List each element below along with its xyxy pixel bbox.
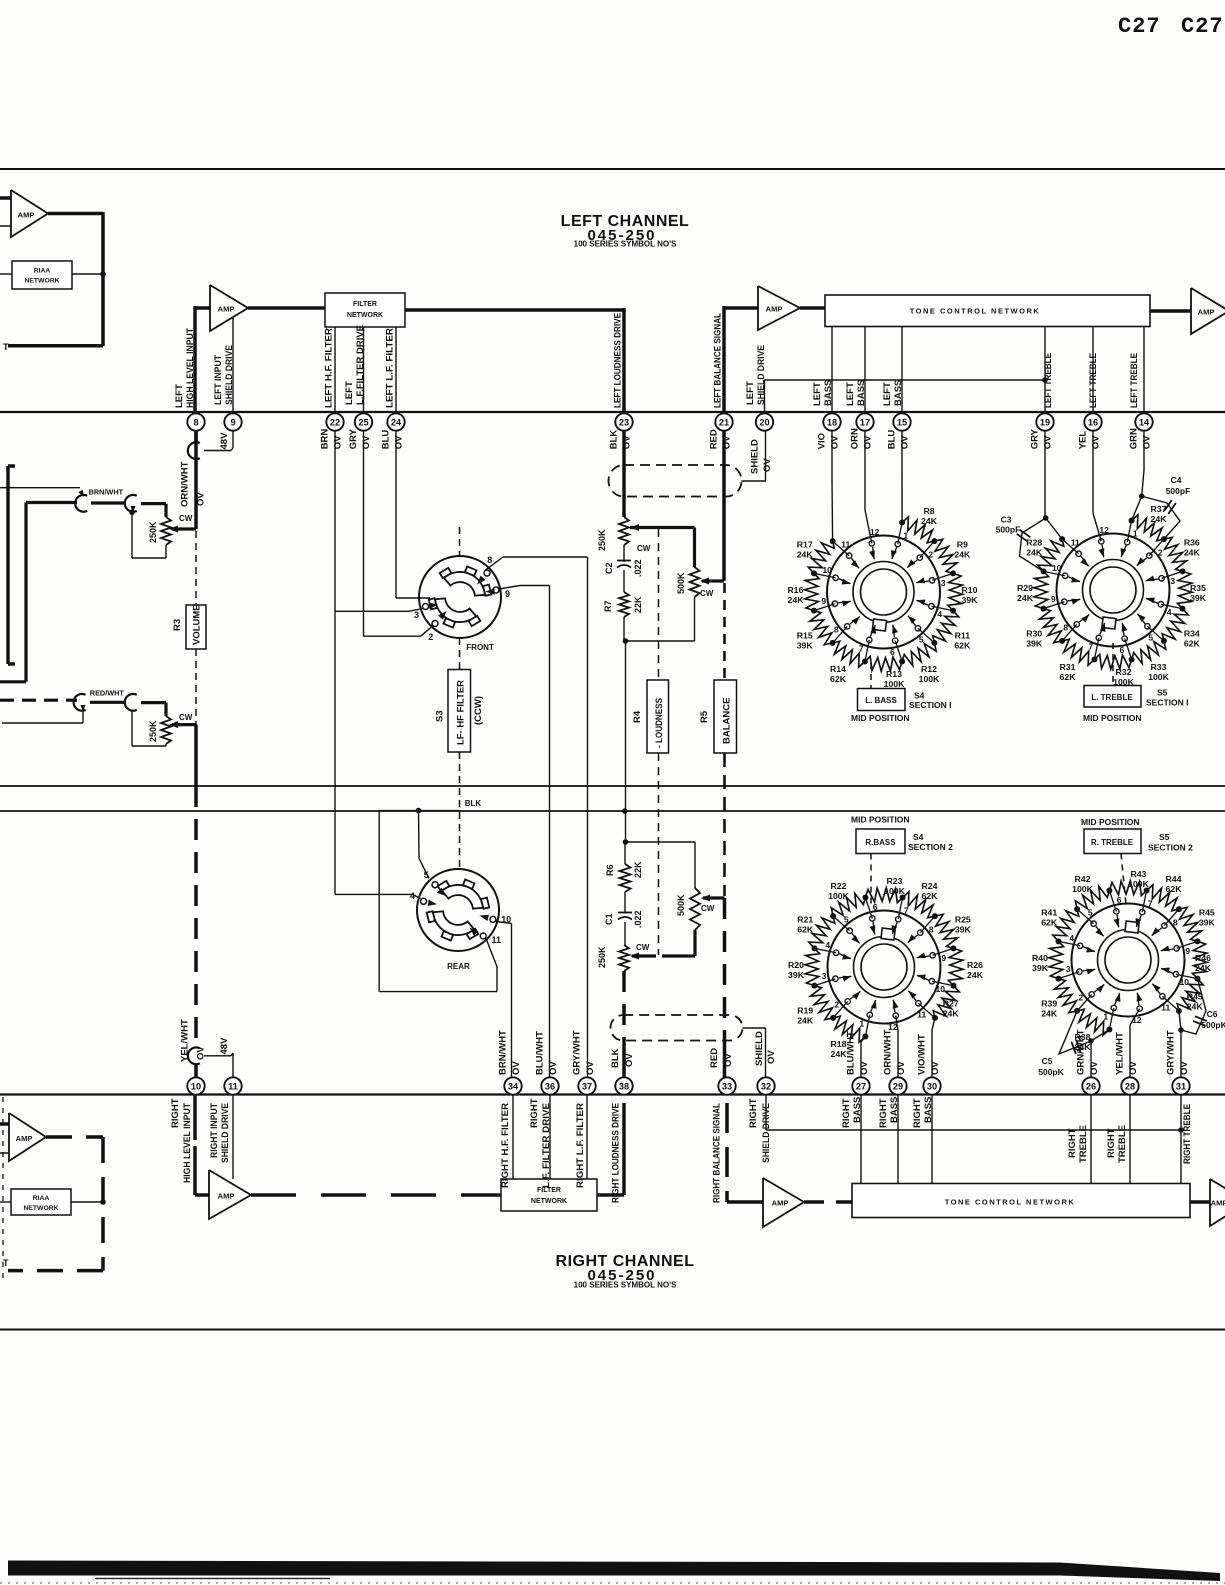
- svg-text:100 SERIES SYMBOL NO'S: 100 SERIES SYMBOL NO'S: [574, 1281, 677, 1290]
- svg-text:RIGHT H.F. FILTER: RIGHT H.F. FILTER: [500, 1103, 511, 1188]
- svg-text:GRY/WHT: GRY/WHT: [572, 1030, 583, 1075]
- svg-text:R11: R11: [955, 631, 971, 641]
- svg-text:- LOUDNESS: - LOUDNESS: [654, 698, 665, 748]
- svg-text:R42: R42: [1075, 874, 1091, 884]
- svg-text:C4: C4: [1171, 475, 1182, 485]
- svg-text:100K: 100K: [1148, 672, 1169, 682]
- svg-text:R16: R16: [788, 585, 804, 595]
- svg-text:RIGHT LOUDNESS DRIVE: RIGHT LOUDNESS DRIVE: [611, 1103, 622, 1203]
- svg-text:9: 9: [230, 417, 235, 427]
- svg-text:FILTER: FILTER: [353, 301, 377, 308]
- svg-text:OV: OV: [624, 1053, 635, 1067]
- svg-text:R33: R33: [1151, 662, 1167, 672]
- svg-text:YEL/WHT: YEL/WHT: [180, 1019, 191, 1062]
- svg-text:RIGHT: RIGHT: [878, 1098, 889, 1128]
- svg-text:2: 2: [1078, 993, 1083, 1003]
- svg-text:R36: R36: [1184, 538, 1200, 548]
- svg-text:R29: R29: [1017, 583, 1033, 593]
- svg-text:R34: R34: [1184, 629, 1200, 639]
- svg-text:VIO: VIO: [817, 433, 828, 449]
- svg-text:LEFT TREBLE: LEFT TREBLE: [1043, 353, 1054, 408]
- svg-text:6: 6: [1117, 895, 1122, 905]
- svg-text:BASS: BASS: [893, 380, 904, 406]
- svg-text:R15: R15: [797, 631, 813, 641]
- svg-text:OV: OV: [196, 492, 207, 506]
- svg-text:R22: R22: [831, 881, 847, 891]
- svg-text:5: 5: [424, 870, 429, 880]
- svg-text:8: 8: [193, 417, 198, 427]
- svg-text:22: 22: [330, 417, 340, 427]
- svg-text:RIGHT: RIGHT: [170, 1098, 181, 1128]
- svg-text:39K: 39K: [962, 595, 979, 605]
- svg-text:3: 3: [414, 610, 419, 620]
- svg-text:20: 20: [759, 417, 769, 427]
- svg-text:C6: C6: [1207, 1009, 1218, 1019]
- svg-text:4: 4: [1167, 607, 1172, 617]
- svg-text:MID POSITION: MID POSITION: [1083, 713, 1142, 723]
- svg-text:16: 16: [1088, 417, 1098, 427]
- svg-text:4: 4: [410, 891, 415, 901]
- svg-text:BLU: BLU: [381, 430, 392, 450]
- svg-text:MID POSITION: MID POSITION: [851, 815, 910, 825]
- svg-text:29: 29: [893, 1081, 903, 1091]
- svg-text:24K: 24K: [831, 1049, 848, 1059]
- svg-text:21: 21: [719, 417, 729, 427]
- svg-text:24K: 24K: [967, 970, 984, 980]
- svg-text:RED: RED: [709, 1048, 720, 1068]
- svg-text:10: 10: [191, 1081, 201, 1091]
- svg-text:30: 30: [927, 1081, 937, 1091]
- svg-text:GRY: GRY: [1030, 428, 1041, 449]
- svg-text:R8: R8: [923, 506, 934, 516]
- svg-text:C27: C27: [1181, 14, 1224, 39]
- svg-text:CW: CW: [700, 589, 714, 598]
- svg-text:C2: C2: [604, 562, 614, 574]
- svg-text:24K: 24K: [788, 595, 805, 605]
- svg-text:NETWORK: NETWORK: [347, 312, 383, 319]
- svg-text:R. TREBLE: R. TREBLE: [1091, 838, 1134, 847]
- svg-text:FILTER: FILTER: [537, 1187, 561, 1194]
- svg-text:24K: 24K: [1151, 514, 1168, 524]
- svg-text:24K: 24K: [1195, 963, 1212, 973]
- svg-text:100K: 100K: [884, 886, 905, 896]
- svg-text:500pK: 500pK: [1038, 1067, 1064, 1077]
- svg-text:4: 4: [825, 940, 830, 950]
- svg-text:RIGHT: RIGHT: [841, 1098, 852, 1128]
- svg-text:R24: R24: [922, 881, 938, 891]
- svg-text:RIGHT: RIGHT: [912, 1098, 923, 1128]
- svg-text:ORN/WHT: ORN/WHT: [883, 1029, 894, 1075]
- svg-text:ORN/WHT: ORN/WHT: [180, 461, 191, 507]
- svg-text:OV: OV: [723, 1053, 734, 1067]
- svg-text:MID POSITION: MID POSITION: [851, 713, 910, 723]
- svg-text:LEFT TREBLE: LEFT TREBLE: [1088, 353, 1099, 408]
- svg-text:.022: .022: [633, 559, 643, 577]
- svg-text:SHIELD DRIVE: SHIELD DRIVE: [756, 345, 767, 405]
- svg-text:R7: R7: [603, 600, 613, 612]
- svg-text:15: 15: [897, 417, 907, 427]
- svg-text:4: 4: [937, 609, 942, 619]
- svg-text:R39: R39: [1041, 999, 1057, 1009]
- svg-text:LF- HF FILTER: LF- HF FILTER: [456, 680, 467, 745]
- svg-text:OV: OV: [585, 1061, 596, 1075]
- svg-text:9: 9: [1051, 594, 1056, 604]
- svg-text:OV: OV: [762, 458, 773, 472]
- svg-text:10: 10: [1180, 977, 1190, 987]
- svg-text:39K: 39K: [1026, 639, 1043, 649]
- svg-text:LEFT: LEFT: [344, 381, 355, 405]
- svg-text:R26: R26: [967, 960, 983, 970]
- svg-text:BLU/WHT: BLU/WHT: [535, 1031, 546, 1075]
- svg-text:250K: 250K: [597, 529, 607, 551]
- svg-text:R20: R20: [788, 960, 804, 970]
- svg-text:R40: R40: [1032, 953, 1048, 963]
- svg-text:S3: S3: [435, 710, 446, 722]
- svg-text:24K: 24K: [797, 1016, 814, 1026]
- svg-text:RIGHT L.F. FILTER: RIGHT L.F. FILTER: [575, 1103, 586, 1188]
- svg-text:6: 6: [873, 902, 878, 912]
- svg-text:3: 3: [822, 971, 827, 981]
- svg-text:BLK: BLK: [609, 430, 620, 450]
- svg-text:250K: 250K: [148, 720, 158, 742]
- svg-text:TONE CONTROL NETWORK: TONE CONTROL NETWORK: [910, 307, 1041, 316]
- svg-text:11: 11: [841, 540, 850, 550]
- svg-text:62K: 62K: [1060, 672, 1077, 682]
- svg-text:HIGH LEVEL INPUT: HIGH LEVEL INPUT: [185, 328, 196, 408]
- svg-text:R9: R9: [957, 540, 968, 550]
- svg-text:AMP: AMP: [766, 305, 783, 314]
- svg-text:8: 8: [1173, 917, 1178, 927]
- svg-text:8: 8: [487, 555, 492, 565]
- svg-text:24K: 24K: [943, 1009, 960, 1019]
- svg-text:LEFT INPUT: LEFT INPUT: [213, 355, 224, 405]
- svg-text:BASS: BASS: [823, 380, 834, 406]
- svg-text:C27: C27: [1118, 14, 1161, 39]
- svg-text:R45: R45: [1199, 908, 1215, 918]
- svg-text:AMP: AMP: [1211, 1199, 1225, 1208]
- svg-text:SHIELD: SHIELD: [750, 439, 761, 474]
- svg-text:C3: C3: [1001, 515, 1012, 525]
- svg-text:9: 9: [821, 596, 826, 606]
- svg-text:9: 9: [1185, 946, 1190, 956]
- svg-text:26: 26: [1086, 1081, 1096, 1091]
- svg-text:RIAA: RIAA: [34, 268, 51, 275]
- svg-text:2: 2: [428, 632, 433, 642]
- svg-text:GRN: GRN: [1129, 428, 1140, 449]
- svg-text:AMP: AMP: [218, 305, 235, 314]
- svg-text:12: 12: [870, 527, 880, 537]
- svg-text:48V: 48V: [219, 432, 230, 450]
- svg-text:YEL: YEL: [1078, 431, 1089, 450]
- svg-text:CW: CW: [701, 904, 715, 913]
- svg-text:14: 14: [1139, 417, 1150, 427]
- svg-text:BALANCE: BALANCE: [722, 698, 733, 744]
- svg-text:LEFT BALANCE SIGNAL: LEFT BALANCE SIGNAL: [713, 313, 724, 408]
- svg-text:8: 8: [834, 625, 839, 635]
- svg-text:AMP: AMP: [772, 1199, 789, 1208]
- svg-text:24K: 24K: [1041, 1009, 1058, 1019]
- svg-text:OV: OV: [766, 1050, 777, 1064]
- svg-text:R25: R25: [955, 915, 971, 925]
- svg-text:NETWORK: NETWORK: [24, 278, 59, 285]
- svg-text:250K: 250K: [148, 521, 158, 543]
- svg-text:100K: 100K: [1072, 884, 1093, 894]
- svg-text:11: 11: [1071, 538, 1080, 548]
- svg-text:37: 37: [582, 1081, 592, 1091]
- svg-text:R4: R4: [632, 710, 643, 723]
- svg-text:11: 11: [228, 1081, 238, 1091]
- svg-text:5: 5: [1148, 632, 1153, 642]
- svg-text:RED/WHT: RED/WHT: [90, 689, 125, 698]
- svg-text:R.BASS: R.BASS: [865, 838, 896, 847]
- svg-text:22K: 22K: [633, 861, 643, 878]
- svg-text:24K: 24K: [1184, 548, 1201, 558]
- svg-text:AMP: AMP: [16, 1134, 33, 1143]
- svg-text:48V: 48V: [219, 1037, 230, 1055]
- svg-text:RIGHT INPUT: RIGHT INPUT: [209, 1103, 220, 1158]
- svg-text:3: 3: [1170, 576, 1175, 586]
- svg-text:BRN/WHT: BRN/WHT: [89, 488, 124, 497]
- svg-text:NETWORK: NETWORK: [23, 1205, 58, 1212]
- svg-text:11: 11: [1161, 1002, 1170, 1012]
- svg-text:62K: 62K: [954, 641, 971, 651]
- svg-text:R41: R41: [1041, 908, 1057, 918]
- svg-text:62K: 62K: [1184, 639, 1201, 649]
- svg-text:R21: R21: [797, 915, 813, 925]
- svg-text:SECTION 2: SECTION 2: [908, 842, 953, 852]
- svg-text:VOLUME: VOLUME: [192, 604, 203, 645]
- svg-text:9: 9: [941, 953, 946, 963]
- svg-text:T: T: [3, 342, 9, 352]
- svg-text:LEFT: LEFT: [845, 382, 856, 406]
- svg-text:R12: R12: [921, 664, 937, 674]
- svg-text:62K: 62K: [830, 674, 847, 684]
- svg-text:25: 25: [358, 417, 368, 427]
- svg-text:R6: R6: [605, 864, 615, 876]
- svg-text:GRY/WHT: GRY/WHT: [1166, 1030, 1177, 1075]
- svg-text:2: 2: [1158, 547, 1163, 557]
- svg-text:32: 32: [761, 1081, 771, 1091]
- svg-text:R14: R14: [830, 664, 846, 674]
- svg-text:24K: 24K: [921, 516, 938, 526]
- svg-text:R23: R23: [887, 876, 903, 886]
- svg-text:LEFT L.F. FILTER: LEFT L.F. FILTER: [385, 328, 396, 408]
- svg-text:RIGHT: RIGHT: [529, 1098, 540, 1128]
- svg-text:R32: R32: [1116, 667, 1132, 677]
- svg-text:5: 5: [919, 634, 924, 644]
- svg-text:62K: 62K: [922, 891, 939, 901]
- svg-text:RIGHT TREBLE: RIGHT TREBLE: [1182, 1104, 1193, 1164]
- svg-text:R5: R5: [699, 710, 710, 723]
- svg-text:SHIELD DRIVE: SHIELD DRIVE: [220, 1103, 231, 1163]
- svg-text:36: 36: [545, 1081, 555, 1091]
- svg-text:LEFT LOUDNESS DRIVE: LEFT LOUDNESS DRIVE: [613, 313, 624, 408]
- svg-text:R37: R37: [1151, 504, 1167, 514]
- svg-text:RIGHT: RIGHT: [1067, 1128, 1078, 1158]
- svg-text:L. TREBLE: L. TREBLE: [1091, 693, 1133, 702]
- svg-text:500K: 500K: [676, 572, 686, 594]
- svg-text:100K: 100K: [919, 674, 940, 684]
- svg-text:100K: 100K: [884, 679, 905, 689]
- svg-text:SECTION I: SECTION I: [1146, 698, 1189, 708]
- svg-text:4: 4: [1069, 933, 1074, 943]
- svg-text:LEFT: LEFT: [812, 382, 823, 406]
- svg-text:11: 11: [917, 1009, 926, 1019]
- svg-text:10: 10: [1052, 563, 1062, 573]
- svg-text:24K: 24K: [954, 550, 971, 560]
- svg-text:AMP: AMP: [1198, 308, 1215, 317]
- svg-text:R46: R46: [1195, 953, 1211, 963]
- svg-text:.022: .022: [633, 910, 643, 928]
- svg-text:33: 33: [722, 1081, 732, 1091]
- svg-text:100K: 100K: [828, 891, 849, 901]
- svg-text:RIGHT: RIGHT: [748, 1098, 759, 1128]
- svg-text:250K: 250K: [597, 946, 607, 968]
- svg-text:2: 2: [834, 1000, 839, 1010]
- svg-text:17: 17: [860, 417, 870, 427]
- svg-text:OV: OV: [394, 435, 405, 449]
- svg-text:24K: 24K: [1026, 548, 1043, 558]
- svg-text:12: 12: [1099, 525, 1109, 535]
- svg-text:R13: R13: [886, 669, 902, 679]
- svg-text:RED: RED: [709, 429, 720, 449]
- svg-text:BLU: BLU: [887, 430, 898, 450]
- svg-text:NETWORK: NETWORK: [531, 1198, 567, 1205]
- svg-text:BASS: BASS: [856, 380, 867, 406]
- svg-text:R17: R17: [797, 540, 813, 550]
- svg-text:23: 23: [619, 417, 629, 427]
- svg-text:S4: S4: [913, 832, 924, 842]
- svg-text:LEFT TREBLE: LEFT TREBLE: [1129, 353, 1140, 408]
- svg-text:39K: 39K: [1199, 918, 1216, 928]
- svg-text:100K: 100K: [1128, 879, 1149, 889]
- svg-text:R27: R27: [943, 999, 959, 1009]
- svg-text:24K: 24K: [1017, 593, 1034, 603]
- svg-text:LEFT: LEFT: [174, 384, 185, 408]
- svg-text:31: 31: [1176, 1081, 1186, 1091]
- svg-text:500K: 500K: [676, 894, 686, 916]
- svg-text:CW: CW: [636, 943, 650, 952]
- svg-text:9: 9: [505, 589, 510, 599]
- svg-text:R44: R44: [1166, 874, 1182, 884]
- svg-text:5: 5: [844, 915, 849, 925]
- svg-text:OV: OV: [511, 1061, 522, 1075]
- svg-text:S5: S5: [1157, 688, 1168, 698]
- svg-text:BRN/WHT: BRN/WHT: [498, 1030, 509, 1075]
- svg-text:RIGHT: RIGHT: [1106, 1128, 1117, 1158]
- svg-text:100 SERIES SYMBOL NO'S: 100 SERIES SYMBOL NO'S: [574, 240, 677, 249]
- svg-text:OV: OV: [830, 435, 841, 449]
- svg-text:27: 27: [856, 1081, 866, 1091]
- svg-text:62K: 62K: [1041, 918, 1058, 928]
- svg-text:SHIELD: SHIELD: [754, 1031, 765, 1066]
- svg-text:2: 2: [928, 549, 933, 559]
- svg-text:24K: 24K: [1187, 1002, 1204, 1012]
- svg-text:OV: OV: [548, 1061, 559, 1075]
- svg-text:REAR: REAR: [447, 962, 470, 971]
- svg-text:R19: R19: [797, 1006, 813, 1016]
- svg-text:OV: OV: [1091, 435, 1102, 449]
- svg-text:YEL/WHT: YEL/WHT: [1115, 1032, 1126, 1075]
- svg-text:R30: R30: [1026, 629, 1042, 639]
- svg-text:CW: CW: [179, 713, 193, 722]
- svg-text:AMP: AMP: [18, 211, 35, 220]
- svg-text:OV: OV: [196, 1046, 207, 1060]
- svg-text:39K: 39K: [788, 970, 805, 980]
- svg-text:OV: OV: [900, 435, 911, 449]
- svg-text:11: 11: [492, 935, 502, 945]
- svg-text:R28: R28: [1026, 538, 1042, 548]
- svg-text:SECTION I: SECTION I: [909, 700, 952, 710]
- svg-text:ORN: ORN: [850, 428, 861, 449]
- svg-text:18: 18: [827, 417, 837, 427]
- svg-text:22K: 22K: [633, 596, 643, 613]
- svg-text:C5: C5: [1042, 1056, 1053, 1066]
- svg-text:39K: 39K: [797, 641, 814, 651]
- svg-text:RIAA: RIAA: [33, 1195, 50, 1202]
- svg-text:HIGH LEVEL INPUT: HIGH LEVEL INPUT: [182, 1103, 193, 1183]
- svg-text:MID POSITION: MID POSITION: [1081, 817, 1140, 827]
- svg-text:8: 8: [929, 924, 934, 934]
- svg-text:L. BASS: L. BASS: [865, 696, 897, 705]
- svg-text:VIO/WHT: VIO/WHT: [917, 1034, 928, 1075]
- svg-text:39K: 39K: [1190, 593, 1207, 603]
- svg-text:R45: R45: [1187, 992, 1203, 1002]
- svg-text:28: 28: [1125, 1081, 1135, 1091]
- svg-text:LEFT H.F. FILTER: LEFT H.F. FILTER: [324, 328, 335, 408]
- svg-text:38: 38: [619, 1081, 629, 1091]
- svg-text:SHIELD DRIVE: SHIELD DRIVE: [224, 345, 235, 405]
- svg-text:R10: R10: [962, 585, 978, 595]
- svg-text:24K: 24K: [797, 550, 814, 560]
- svg-text:(CCW): (CCW): [473, 696, 484, 725]
- svg-text:R3: R3: [172, 619, 183, 631]
- svg-text:8: 8: [1063, 623, 1068, 633]
- svg-text:RIGHT BALANCE SIGNAL: RIGHT BALANCE SIGNAL: [712, 1103, 723, 1203]
- svg-text:SECTION 2: SECTION 2: [1148, 843, 1193, 853]
- svg-text:OV: OV: [863, 435, 874, 449]
- svg-text:T: T: [3, 1258, 9, 1268]
- svg-text:500pK: 500pK: [1201, 1020, 1225, 1030]
- svg-text:39K: 39K: [1032, 963, 1049, 973]
- svg-text:24: 24: [391, 417, 402, 427]
- svg-text:19: 19: [1040, 417, 1050, 427]
- svg-text:10: 10: [936, 984, 946, 994]
- svg-text:CW: CW: [637, 544, 651, 553]
- svg-text:R43: R43: [1131, 869, 1147, 879]
- svg-text:L.F.FILTER DRIVE: L.F.FILTER DRIVE: [355, 325, 366, 405]
- svg-text:OV: OV: [333, 435, 344, 449]
- svg-text:OV: OV: [1043, 435, 1054, 449]
- svg-text:10: 10: [822, 565, 832, 575]
- svg-text:FRONT: FRONT: [466, 643, 494, 652]
- svg-text:R31: R31: [1060, 662, 1076, 672]
- svg-text:C1: C1: [604, 913, 614, 925]
- svg-text:3: 3: [941, 578, 946, 588]
- svg-text:TONE CONTROL NETWORK: TONE CONTROL NETWORK: [945, 1198, 1076, 1207]
- svg-text:OV: OV: [1142, 435, 1153, 449]
- svg-text:S5: S5: [1159, 832, 1170, 842]
- svg-text:39K: 39K: [955, 925, 972, 935]
- svg-text:GRY: GRY: [348, 428, 359, 449]
- svg-text:LEFT: LEFT: [882, 382, 893, 406]
- svg-text:R18: R18: [831, 1039, 847, 1049]
- svg-text:S4: S4: [914, 691, 925, 701]
- svg-text:34: 34: [508, 1081, 519, 1091]
- svg-text:BRN: BRN: [320, 429, 331, 450]
- svg-text:BLK: BLK: [465, 799, 482, 808]
- svg-text:CW: CW: [179, 514, 193, 523]
